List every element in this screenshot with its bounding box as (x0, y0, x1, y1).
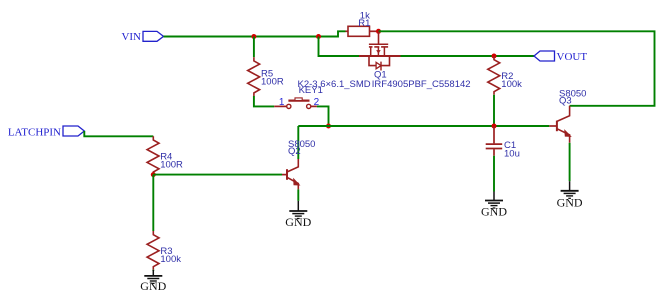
base bar (286, 169, 288, 180)
channel segment middle (374, 46, 379, 48)
svg-text:100R: 100R (160, 160, 183, 171)
pin 2 contact circle (307, 104, 311, 108)
wire R5 bottom to KEY1 pin 1 (254, 96, 274, 106)
body diode loop (369, 56, 376, 66)
channel segment right (381, 46, 388, 48)
svg-text:IRF4905PBF_C558142: IRF4905PBF_C558142 (372, 79, 471, 90)
junction dot R4/R3/Q2 base (151, 172, 156, 177)
pushbutton KEY1 (274, 79, 371, 109)
bulk arrow head (376, 50, 381, 54)
wire Q2 emitter to ground (297, 189, 299, 201)
actuator bump (295, 98, 302, 101)
svg-text:10u: 10u (504, 148, 520, 159)
ground under Q2 (285, 201, 311, 229)
junction dot R2 top (492, 54, 497, 59)
resistor R2 100k (488, 56, 522, 95)
base lead (282, 174, 287, 176)
svg-text:100k: 100k (501, 79, 522, 90)
top pin (493, 126, 495, 143)
wire C1 to ground (493, 156, 495, 192)
net flag VIN (121, 31, 163, 43)
junction dot at MOSFET source branch (316, 34, 321, 39)
body diode cathode bar (380, 62, 382, 71)
top plate (486, 143, 503, 145)
collector pin (557, 106, 570, 122)
wire gate node to right edge down to Q3 collector (379, 31, 655, 106)
junction dot mid rail / KEY1 (326, 124, 331, 129)
source-drain bar (359, 55, 401, 57)
svg-text:100R: 100R (261, 76, 284, 87)
mosfet Q1 IRF4905PBF (P-channel with body diode) (359, 31, 471, 90)
ground under C1 (481, 192, 507, 219)
wire LATCHPIN to R4 (84, 131, 153, 136)
svg-text:GND: GND (140, 279, 166, 293)
wire VIN to R1 (with jog up) (164, 31, 346, 36)
wire Q2 collector drop (297, 126, 299, 159)
channel segment left (369, 46, 373, 48)
ground under R3 (140, 270, 166, 293)
transistor Q2 S8050 (NPN) (282, 139, 315, 190)
bulk arrow line (377, 47, 379, 56)
pin 1 lead (274, 105, 286, 107)
collector pin (287, 159, 298, 172)
bottom plate (486, 148, 503, 150)
emitter arrow head (565, 130, 571, 136)
svg-text:Q2: Q2 (288, 146, 301, 157)
wire KEY1 pin2 down to mid rail (317, 106, 329, 126)
wire VIN branch down to Q1 source (319, 37, 360, 57)
junction dot C1 top (492, 124, 497, 129)
gate plate (369, 43, 388, 45)
base bar (556, 121, 558, 132)
transistor Q3 S8050 (NPN) (549, 88, 586, 142)
svg-text:R1: R1 (358, 18, 370, 29)
wire base rail to Q2 (153, 174, 282, 176)
gate pin (378, 31, 380, 44)
emitter (287, 177, 298, 189)
wire Q1 drain to VOUT (401, 55, 535, 57)
svg-text:GND: GND (557, 196, 583, 210)
emitter arrow head (294, 179, 300, 185)
junction dot at R5 branch (251, 34, 256, 39)
svg-text:Q3: Q3 (559, 96, 572, 107)
pin 1 contact circle (287, 104, 291, 108)
svg-text:GND: GND (285, 215, 311, 229)
source leg (370, 47, 372, 56)
bottom pin (493, 149, 495, 156)
resistor R4 100R (147, 136, 183, 175)
actuator bar (288, 99, 309, 101)
ground under Q3 (557, 181, 583, 209)
svg-text:K2-3,6×6.1_SMD: K2-3,6×6.1_SMD (298, 79, 371, 90)
emitter (557, 129, 570, 143)
wire Q3 emitter to ground (569, 143, 571, 181)
net flag VOUT (534, 51, 587, 63)
mid rail wire (298, 125, 549, 127)
junction dot gate node (376, 29, 381, 34)
wire R3 bottom stub (152, 270, 154, 271)
net flag LATCHPIN (8, 126, 84, 138)
svg-text:VIN: VIN (121, 31, 141, 43)
resistor R5 100R (248, 57, 284, 96)
pin 2 lead (311, 105, 317, 107)
resistor R1 1k (box style) (346, 11, 379, 37)
wire R5 top (253, 37, 255, 58)
body diode triangle (376, 62, 381, 69)
svg-text:GND: GND (481, 205, 507, 219)
capacitor C1 10u (486, 126, 520, 159)
svg-text:LATCHPIN: LATCHPIN (8, 126, 61, 138)
svg-text:1: 1 (279, 97, 285, 108)
wire down to R3 (152, 175, 154, 231)
resistor R3 100k (147, 231, 181, 270)
svg-text:VOUT: VOUT (557, 51, 588, 63)
svg-text:100k: 100k (160, 254, 181, 265)
drain leg (383, 47, 385, 56)
wire R2 bottom to mid rail (493, 95, 495, 126)
base lead (549, 125, 557, 127)
